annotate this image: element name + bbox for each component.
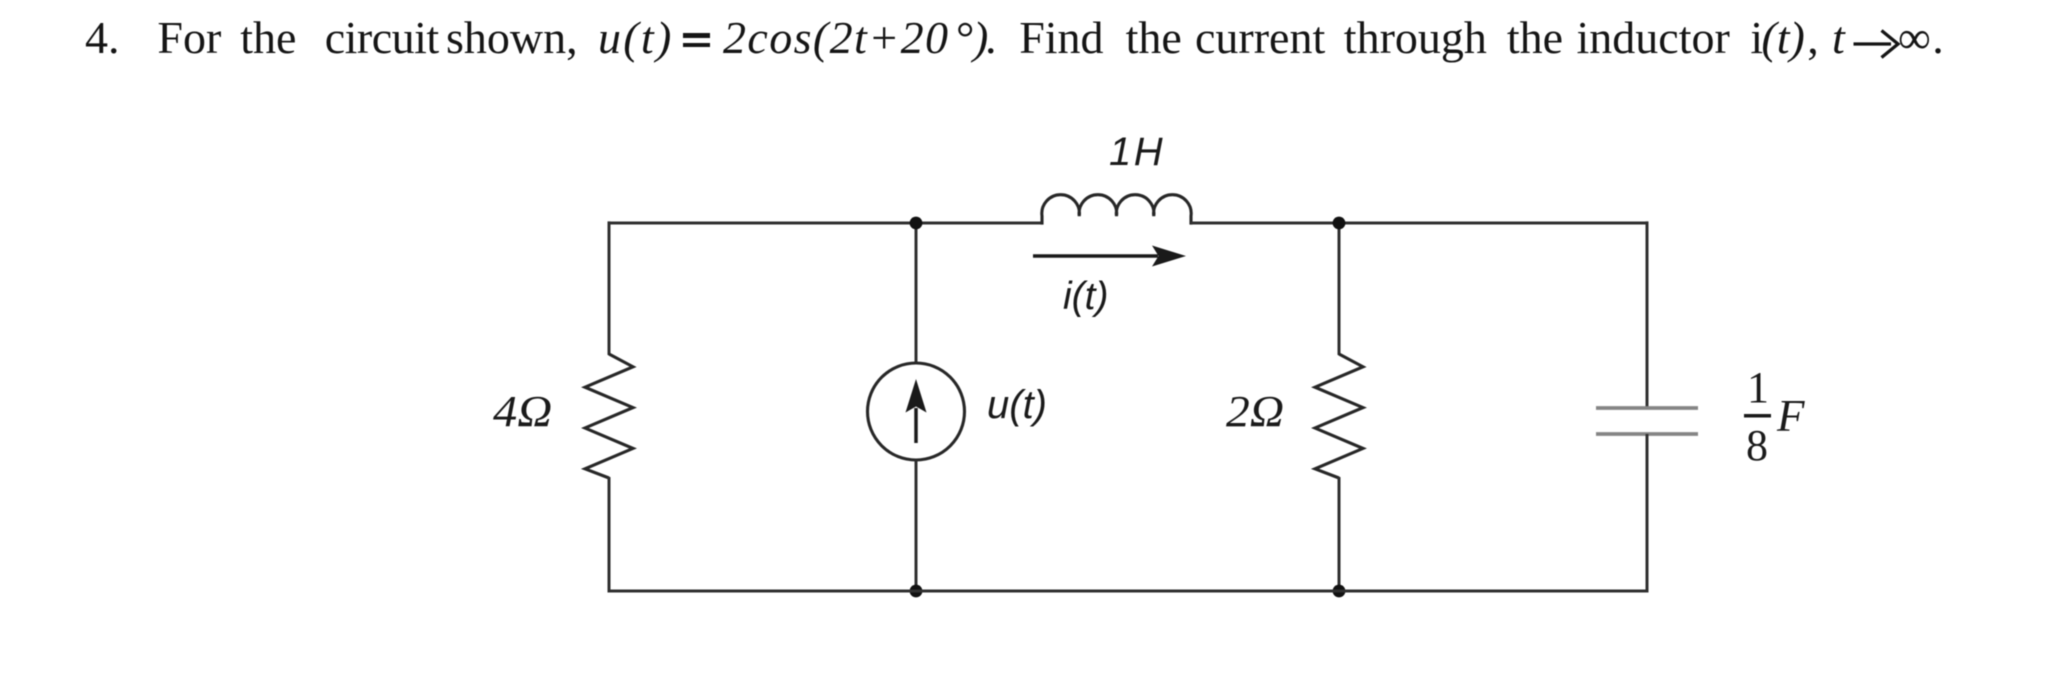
svg-text:1H: 1H [1109,130,1165,174]
svg-text:F: F [1776,391,1805,441]
wire: right vertical upper to capacitor [1646,221,1649,408]
capacitor C1 bottom plate [1596,432,1698,436]
wire: 2ohm branch upper [1338,223,1341,355]
label i(t) [1063,275,1108,318]
wire: current source branch upper [915,223,918,363]
label u(t) [987,383,1047,427]
wire: left vertical lower segment [608,477,611,593]
svg-text:u(t): u(t) [987,383,1047,427]
svg-text:8: 8 [1746,421,1768,470]
current source U1 [868,363,965,460]
problem statement title [0,0,2046,80]
resistor R2 2ohm [1315,354,1363,478]
wire: right vertical lower from capacitor [1646,434,1649,593]
junction node dot top of 2ohm branch [1333,217,1346,230]
label F unit [1776,391,1805,441]
wire: top-left segment from left corner to inductor [609,222,1042,225]
label fraction bar [1744,414,1771,418]
svg-text:4Ω: 4Ω [493,388,552,437]
label 1/8 F fraction denominator [1746,421,1768,470]
wire: left vertical upper segment [608,221,611,355]
wire: current source branch lower [915,460,918,591]
wire: bottom segment [609,590,1647,593]
label 2 ohm [1226,387,1284,436]
wire: top-right segment from inductor to right corner [1191,222,1647,225]
inductor L1 1H [1042,195,1191,225]
label 1H [1109,130,1165,174]
current arrow for i(t) [1033,246,1186,267]
junction node dot bottom of 2ohm branch [1333,585,1346,598]
label 4 ohm [493,388,552,437]
wire: 2ohm branch lower [1338,477,1341,591]
capacitor C1 top plate [1596,406,1698,410]
junction node dot bottom of source branch [910,585,923,598]
resistor R1 4ohm [585,354,633,478]
svg-text:2Ω: 2Ω [1226,387,1284,436]
label 1/8 F fraction numerator [1747,363,1769,412]
arrow glyph in title (t to infinity) [1854,31,1899,58]
junction node dot top of source branch [910,217,923,230]
svg-text:1: 1 [1747,363,1769,412]
svg-text:i(t): i(t) [1063,275,1108,318]
